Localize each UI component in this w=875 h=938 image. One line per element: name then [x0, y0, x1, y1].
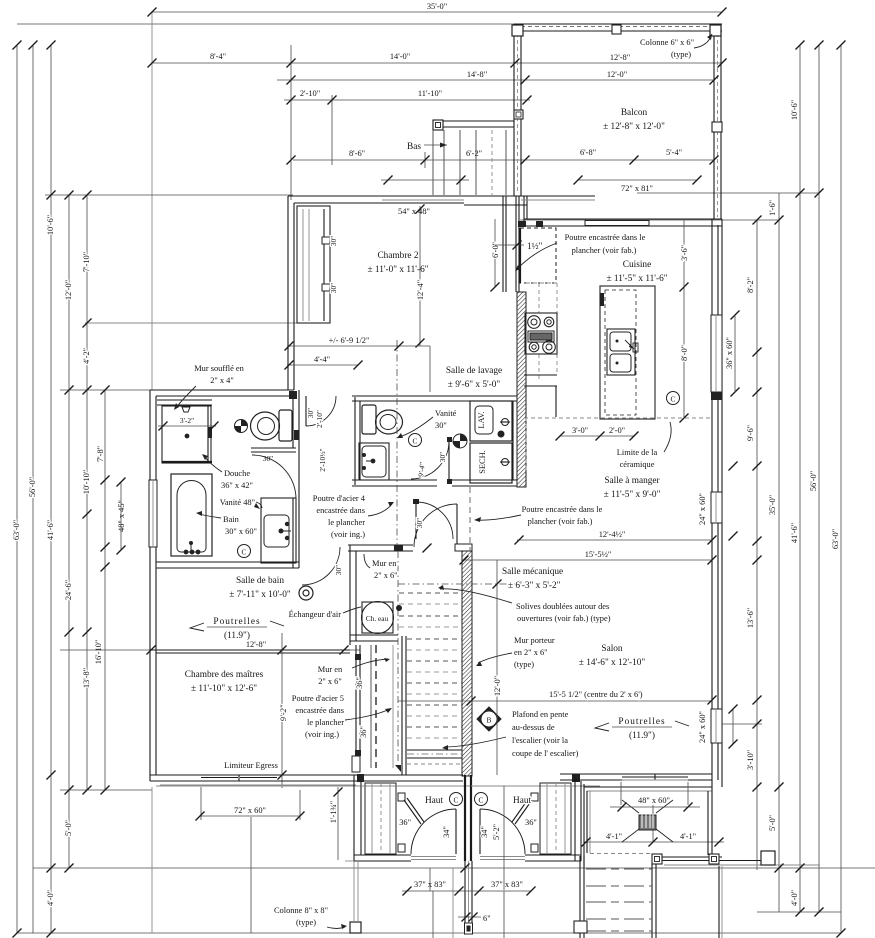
svg-text:30": 30" [334, 565, 343, 575]
svg-text:1'-6": 1'-6" [768, 200, 777, 216]
right door jambs [531, 793, 538, 801]
svg-text:24'-6": 24'-6" [64, 580, 73, 600]
window 24x60 east (salon) [711, 709, 722, 743]
garage roof line [85, 322, 330, 324]
column mid top [612, 25, 621, 34]
landing lines [407, 749, 462, 751]
svg-text:Poutre encastrée dans le: Poutre encastrée dans le [565, 233, 646, 242]
svg-text:coupe de l' escalier): coupe de l' escalier) [512, 749, 579, 758]
svg-text:41'-6": 41'-6" [790, 523, 799, 543]
svg-text:48" x 45": 48" x 45" [117, 500, 126, 532]
column 6x6 top-right [710, 25, 721, 36]
window 24x60 east (dining) [711, 492, 722, 523]
right door arc [480, 809, 525, 854]
corridor west wall / ch.eau closet [349, 545, 351, 645]
72 x 60 bottom dim [196, 812, 205, 821]
svg-text:14'-8": 14'-8" [467, 70, 487, 79]
svg-text:Douche: Douche [224, 469, 250, 478]
svg-text:Mur en: Mur en [372, 559, 397, 568]
svg-text:4'-4": 4'-4" [314, 355, 330, 364]
svg-text:± 11'-0" x 11'-6": ± 11'-0" x 11'-6" [367, 265, 428, 275]
svg-text:8'-6": 8'-6" [349, 149, 365, 158]
svg-text:30": 30" [438, 452, 447, 462]
svg-text:6'-8": 6'-8" [580, 148, 596, 157]
svg-text:céramique: céramique [620, 460, 655, 469]
svg-text:Vanité: Vanité [435, 409, 457, 418]
svg-text:6": 6" [483, 914, 491, 923]
stove [525, 313, 557, 354]
48x60 dim [610, 806, 700, 808]
svg-text:Salle à manger: Salle à manger [604, 476, 660, 486]
svg-text:C: C [413, 437, 418, 446]
svg-text:34": 34" [480, 826, 489, 838]
column mid right rail [712, 122, 722, 132]
svg-text:Poutrelles: Poutrelles [213, 617, 260, 627]
svg-text:C: C [242, 548, 247, 557]
svg-text:plancher (voir fab.): plancher (voir fab.) [572, 246, 637, 255]
svg-text:LAV.: LAV. [477, 411, 486, 428]
svg-text:Solives doublées autour des: Solives doublées autour des [516, 602, 609, 611]
svg-text:15'-5 1/2" (centre du 2' x 6'): 15'-5 1/2" (centre du 2' x 6') [549, 690, 643, 699]
svg-text:16'-10": 16'-10" [94, 640, 103, 664]
svg-text:encastrée dans: encastrée dans [316, 506, 365, 515]
svg-text:10'-6": 10'-6" [46, 215, 55, 235]
svg-text:4'-0": 4'-0" [790, 890, 799, 906]
bath vanity [261, 498, 296, 563]
svg-text:36" x 42": 36" x 42" [221, 481, 253, 490]
37x83 dims [402, 890, 531, 892]
kitchen west hatched wall [517, 292, 526, 487]
svg-text:Haut: Haut [513, 796, 531, 806]
svg-text:5'-4": 5'-4" [666, 148, 682, 157]
shower enclosure [162, 406, 211, 463]
east wall jamb [294, 430, 299, 440]
svg-text:2'-10": 2'-10" [300, 89, 320, 98]
svg-text:± 7'-11" x 10'-0": ± 7'-11" x 10'-0" [229, 590, 291, 600]
patio door marker [639, 815, 656, 830]
svg-text:± 9'-6" x 5'-0": ± 9'-6" x 5'-0" [448, 380, 501, 390]
svg-text:Poutrelles: Poutrelles [618, 717, 665, 727]
svg-text:72" x 81": 72" x 81" [621, 184, 653, 193]
vanity 2 [359, 443, 389, 480]
bottom-left porch vertical [250, 817, 252, 933]
bathtub [171, 474, 212, 556]
stairwell east wall upper [523, 196, 525, 222]
chambre maitres top wall [150, 649, 350, 651]
toilet 1 (tank right, bowl left) [279, 410, 292, 441]
svg-text:Chambre 2: Chambre 2 [377, 251, 418, 261]
washer LAV [470, 401, 512, 441]
dim line at house top-left [45, 194, 293, 196]
cut line [398, 583, 530, 585]
black corner [289, 391, 297, 399]
svg-text:34": 34" [442, 826, 451, 838]
svg-text:au-dessus de: au-dessus de [512, 723, 555, 732]
circled C kitchen [667, 392, 680, 405]
chambre2 top wall [288, 195, 527, 197]
svg-text:3'-0": 3'-0" [572, 426, 588, 435]
bottom left column 8x8 [274, 861, 361, 933]
bath east wall [292, 396, 294, 448]
svg-text:30": 30" [435, 421, 447, 430]
toilet door arc [252, 455, 296, 499]
fridge dashed [520, 228, 556, 283]
svg-text:Poutre d'acier 4: Poutre d'acier 4 [313, 494, 366, 503]
svg-text:4'-1": 4'-1" [680, 832, 696, 841]
front walk centerline [452, 868, 454, 938]
left door jambs [398, 793, 405, 801]
laundry / kitchen separation wall [512, 401, 514, 480]
ceramic dashed line [524, 417, 712, 419]
top horizontal dim lines [152, 11, 722, 13]
svg-text:Salle mécanique: Salle mécanique [502, 567, 563, 577]
right vestibule outer wall [574, 775, 576, 861]
svg-text:13'-6": 13'-6" [746, 608, 755, 628]
svg-text:8'-0": 8'-0" [680, 345, 689, 361]
floor drain [235, 420, 248, 433]
entry front wall [345, 860, 354, 862]
window 54x48 [382, 199, 464, 201]
bottom dim lines [60, 789, 152, 791]
svg-text:Colonne 6" x 6": Colonne 6" x 6" [640, 38, 694, 47]
svg-text:Échangeur d'air: Échangeur d'air [289, 609, 342, 619]
dim texts left (rotated) [12, 215, 105, 906]
svg-text:4'-1": 4'-1" [606, 832, 622, 841]
svg-text:48" x 60": 48" x 60" [638, 796, 670, 805]
central divider [464, 775, 466, 861]
svg-text:Ch. eau: Ch. eau [366, 614, 389, 623]
balcony right rail [713, 24, 715, 219]
upper-floor outline line [151, 12, 153, 390]
mid-level dims [287, 345, 430, 347]
svg-text:37" x 83": 37" x 83" [491, 880, 523, 889]
svg-text:3'-6": 3'-6" [680, 245, 689, 261]
svg-text:12'-8": 12'-8" [610, 53, 630, 62]
svg-text:Colonne 8" x 8": Colonne 8" x 8" [274, 906, 328, 915]
diamond B [477, 707, 501, 731]
svg-text:Limiteur Egress: Limiteur Egress [224, 761, 278, 770]
svg-text:8'-4": 8'-4" [210, 52, 226, 61]
left sidelight panel [365, 783, 396, 854]
corridor bottom wall of powder/laundry [352, 479, 437, 481]
circled C laundry hall [409, 434, 422, 447]
svg-text:Salle de bain: Salle de bain [236, 576, 284, 586]
double circle bath [299, 586, 313, 600]
svg-text:(voir ing.): (voir ing.) [305, 730, 339, 739]
svg-text:1'-1¾": 1'-1¾" [329, 801, 338, 823]
balcony top rail [514, 23, 722, 25]
svg-text:Poutre encastrée dans le: Poutre encastrée dans le [522, 505, 603, 514]
svg-text:36" x 60": 36" x 60" [725, 337, 734, 369]
svg-text:5'-0": 5'-0" [64, 820, 73, 836]
12-4.5 / 15-5.5 dims [517, 539, 712, 541]
dim texts right (rotated) [698, 100, 840, 906]
12-0 vertical right of stairs [496, 560, 498, 775]
svg-text:24" x 60": 24" x 60" [698, 493, 707, 525]
svg-text:(type): (type) [296, 918, 316, 927]
svg-text:Bas: Bas [407, 142, 421, 152]
stair left wall lower [401, 636, 403, 775]
svg-text:12'-0": 12'-0" [64, 280, 73, 300]
svg-text:Salle de lavage: Salle de lavage [446, 366, 502, 376]
svg-text:± 11'-5" x 9'-0": ± 11'-5" x 9'-0" [604, 490, 661, 500]
svg-text:5'-0": 5'-0" [768, 815, 777, 831]
chambre maitres top dim [60, 649, 360, 651]
ch.eau closet bottom [350, 634, 398, 636]
svg-text:ouvertures (voir fab.) (type): ouvertures (voir fab.) (type) [517, 614, 611, 623]
hall door at x416 [415, 502, 417, 539]
svg-text:12'-8": 12'-8" [246, 640, 266, 649]
svg-text:72" x 60": 72" x 60" [234, 806, 266, 815]
chambre2 west wall [287, 196, 289, 390]
svg-text:12'-0": 12'-0" [493, 676, 502, 696]
svg-text:9'-2": 9'-2" [279, 704, 288, 721]
svg-text:63'-0": 63'-0" [831, 529, 840, 549]
svg-text:56'-0": 56'-0" [28, 477, 37, 497]
dryer SECH [470, 443, 512, 483]
lower stair run lines [352, 645, 401, 782]
treads (dashed) [399, 593, 462, 738]
svg-text:± 11'-10" x 12'-6": ± 11'-10" x 12'-6" [191, 684, 257, 694]
column mid left rail [514, 110, 523, 119]
svg-text:36": 36" [525, 818, 537, 827]
svg-text:30": 30" [263, 454, 273, 463]
svg-text:C: C [479, 796, 484, 805]
svg-text:Salon: Salon [601, 644, 623, 654]
svg-text:6'-2": 6'-2" [466, 149, 482, 158]
kitchen dims [560, 435, 634, 437]
svg-text:12'-4": 12'-4" [416, 280, 425, 300]
svg-text:56'-0": 56'-0" [809, 471, 818, 491]
12-8 dim text chambre maitres [147, 646, 156, 655]
svg-text:± 6'-3" x 5'-2": ± 6'-3" x 5'-2" [508, 581, 561, 591]
egress windows [201, 777, 238, 779]
right horizontal joins [637, 192, 819, 194]
right door leaf [515, 800, 532, 824]
svg-text:3'-10": 3'-10" [746, 750, 755, 770]
west wall of house [149, 390, 151, 781]
svg-text:3'-2": 3'-2" [180, 416, 194, 425]
svg-text:en 2" x 6": en 2" x 6" [514, 648, 548, 657]
window 36x60 east [711, 315, 722, 392]
right sidelight panel [540, 783, 571, 854]
corridor wall above stairs [348, 544, 413, 546]
svg-text:6'-0": 6'-0" [491, 242, 500, 258]
svg-text:2'-10": 2'-10" [315, 410, 324, 428]
svg-text:12'-4½": 12'-4½" [599, 530, 626, 539]
svg-text:B: B [487, 716, 492, 725]
column 6x6 top-left [512, 25, 523, 36]
counter dashed [556, 283, 558, 313]
svg-text:C: C [454, 796, 459, 805]
svg-text:15'-5½": 15'-5½" [585, 550, 612, 559]
svg-text:Mur porteur: Mur porteur [514, 636, 555, 645]
svg-text:Mur soufflé en: Mur soufflé en [194, 364, 244, 373]
svg-text:35'-0": 35'-0" [768, 495, 777, 515]
balcony left rail [513, 24, 515, 196]
walkway between doors [464, 861, 466, 933]
svg-text:24" x 60": 24" x 60" [698, 711, 707, 743]
svg-text:± 12'-8" x 12'-0": ± 12'-8" x 12'-0" [603, 122, 665, 132]
svg-text:12'-0": 12'-0" [607, 70, 627, 79]
svg-text:Bain: Bain [223, 515, 240, 524]
svg-text:13'-8": 13'-8" [82, 668, 91, 688]
svg-text:(type): (type) [514, 660, 534, 669]
svg-text:plancher (voir fab.): plancher (voir fab.) [528, 517, 593, 526]
bath alcove bottom wall [156, 561, 299, 563]
island [600, 286, 655, 419]
svg-text:4'-0": 4'-0" [46, 890, 55, 906]
svg-text:± 11'-5" x 11'-6": ± 11'-5" x 11'-6" [606, 274, 667, 284]
svg-text:5'-2": 5'-2" [492, 824, 501, 840]
bath corridor door [306, 396, 336, 426]
svg-text:Limite de la: Limite de la [617, 448, 658, 457]
entry top dashed ceiling line [361, 785, 465, 787]
svg-text:36": 36" [399, 818, 411, 827]
svg-text:le plancher: le plancher [328, 518, 365, 527]
svg-text:2" x 6": 2" x 6" [318, 677, 342, 686]
svg-text:(11.9"): (11.9") [629, 730, 655, 741]
patio door top [585, 221, 649, 226]
svg-text:2'-10½": 2'-10½" [318, 448, 327, 471]
svg-text:36": 36" [359, 726, 368, 738]
balcony floor edge above kitchen [521, 195, 595, 197]
svg-text:2" x 6": 2" x 6" [374, 571, 398, 580]
stair hatched bearing wall [462, 551, 472, 776]
east wall [711, 219, 713, 787]
svg-text:30": 30" [329, 236, 338, 246]
svg-text:Haut: Haut [425, 796, 443, 806]
patio window 48x60 [622, 776, 688, 778]
left vestibule outer wall [353, 775, 355, 861]
dim line left of bath [60, 389, 152, 391]
svg-text:30": 30" [329, 283, 338, 293]
porch column [761, 851, 775, 865]
left door leaf diagonal [404, 800, 421, 824]
toilet alcove bottom wall [251, 447, 296, 449]
svg-text:SECH.: SECH. [478, 450, 487, 474]
svg-text:± 14'-6" x 12'-10": ± 14'-6" x 12'-10" [579, 658, 646, 668]
4'-1" dims [582, 838, 591, 847]
kitchen top wall [524, 218, 722, 220]
svg-text:Balcon: Balcon [621, 108, 648, 118]
svg-text:36": 36" [355, 677, 364, 689]
svg-text:Cuisine: Cuisine [623, 260, 651, 270]
svg-text:Chambre des maîtres: Chambre des maîtres [185, 670, 264, 680]
svg-text:4'-2": 4'-2" [82, 348, 91, 364]
svg-text:encastrée dans: encastrée dans [295, 706, 344, 715]
svg-text:10'-10": 10'-10" [82, 470, 91, 494]
powder room walls [354, 397, 356, 485]
svg-text:(type): (type) [671, 50, 691, 59]
svg-text:(voir ing.): (voir ing.) [331, 530, 365, 539]
svg-text:2'-0": 2'-0" [609, 426, 625, 435]
15-5 1/2 centre [398, 700, 712, 702]
svg-text:41'-6": 41'-6" [46, 520, 55, 540]
svg-text:63'-0": 63'-0" [12, 520, 21, 540]
svg-text:2" x 4": 2" x 4" [210, 376, 234, 385]
bath top wall [150, 389, 294, 391]
svg-text:30" x 60": 30" x 60" [225, 527, 257, 536]
circled C bath [238, 545, 251, 558]
stairwell upper walls [502, 196, 504, 292]
svg-text:8'-2": 8'-2" [746, 277, 755, 293]
corridor-to-bath lower door [302, 547, 340, 585]
salon south wall [572, 774, 580, 782]
window 48x45 west [149, 480, 157, 547]
svg-text:7'-8": 7'-8" [96, 446, 105, 462]
soffit wall line [157, 399, 212, 401]
powder door [411, 441, 449, 479]
svg-text:Mur en: Mur en [318, 665, 343, 674]
svg-text:+/- 6'-9 1/2": +/- 6'-9 1/2" [329, 336, 370, 345]
svg-text:54" x 48": 54" x 48" [398, 207, 430, 216]
svg-text:30": 30" [306, 408, 315, 418]
cross drain laundry [453, 434, 467, 448]
svg-text:C: C [671, 395, 676, 404]
svg-text:30": 30" [415, 518, 424, 528]
svg-text:9'-4": 9'-4" [416, 461, 427, 477]
top dim risers [290, 45, 292, 200]
dim texts top [210, 2, 682, 193]
svg-text:10'-6": 10'-6" [790, 100, 799, 120]
svg-text:Poutre d'acier 5: Poutre d'acier 5 [292, 694, 344, 703]
shower head [182, 407, 190, 412]
Poutrelles labels [190, 617, 284, 641]
svg-text:9'-6": 9'-6" [746, 425, 755, 441]
left door arc [411, 809, 456, 854]
bottom-left wall (chambre south) [150, 774, 463, 776]
right vertical dim lines [756, 220, 758, 870]
svg-text:11'-10": 11'-10" [418, 89, 442, 98]
svg-text:Vanité 48": Vanité 48" [220, 498, 255, 507]
svg-text:le plancher: le plancher [307, 718, 344, 727]
svg-text:35'-0": 35'-0" [427, 2, 447, 11]
svg-text:l'escalier (voir la: l'escalier (voir la [512, 736, 568, 745]
toilet 2 [362, 405, 376, 434]
left vertical dim lines [16, 45, 18, 933]
svg-text:Plafond en pente: Plafond en pente [512, 710, 569, 719]
svg-text:14'-0": 14'-0" [390, 52, 410, 61]
svg-text:7'-10": 7'-10" [82, 252, 91, 272]
